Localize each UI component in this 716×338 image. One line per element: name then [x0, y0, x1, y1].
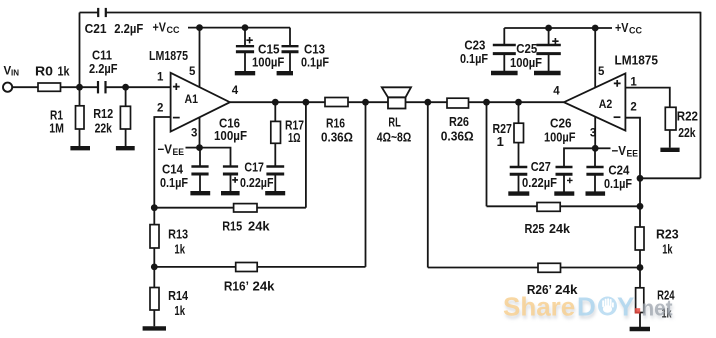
svg-text:0.36Ω: 0.36Ω [441, 129, 474, 144]
ground - R22 [660, 148, 679, 152]
svg-text:100µF: 100µF [544, 129, 576, 144]
svg-text:4Ω~8Ω: 4Ω~8Ω [377, 129, 411, 144]
svg-text:R22: R22 [677, 109, 698, 124]
capacitor C24 [586, 166, 603, 168]
wire - R25 left vertical [486, 102, 488, 206]
ground - C25 [534, 71, 561, 75]
svg-text:R25: R25 [525, 221, 545, 236]
wire - C14 stem upper [199, 148, 201, 167]
svg-text:22k: 22k [95, 121, 113, 136]
svg-text:1k: 1k [174, 303, 185, 318]
svg-text:+V: +V [153, 19, 167, 34]
ground - R14 [143, 326, 166, 330]
svg-text:1k: 1k [662, 241, 673, 256]
wire - node to R15 right vertical [305, 102, 307, 208]
wire - -Vee right label dash [598, 147, 611, 149]
wire - +Vcc left rail [188, 27, 290, 29]
resistor R15 [234, 204, 257, 212]
node speaker left [362, 99, 369, 106]
capacitor C15 [236, 45, 254, 47]
svg-text:100µF: 100µF [214, 128, 247, 143]
svg-text:IN: IN [11, 69, 19, 78]
svg-text:−V: −V [158, 142, 173, 156]
wire - A1 pin 3 down to -Vee node [199, 117, 201, 147]
wire - node to R26p column [427, 102, 429, 267]
svg-text:2: 2 [630, 102, 636, 114]
op-amp A2 [564, 73, 626, 130]
svg-text:C25: C25 [516, 41, 537, 56]
svg-text:1: 1 [497, 134, 504, 149]
resistor R23 [635, 227, 644, 250]
svg-text:100µF: 100µF [252, 55, 284, 70]
ground - R1 [70, 146, 90, 150]
capacitor C21 [97, 8, 99, 17]
wire - R27/C27 branch [518, 102, 520, 167]
svg-text:3: 3 [590, 128, 596, 140]
svg-text:R0: R0 [35, 64, 53, 79]
svg-text:LM1875: LM1875 [149, 49, 188, 63]
svg-text:R14: R14 [168, 288, 189, 303]
svg-text:RL: RL [388, 114, 400, 129]
wire - R16p row [154, 266, 365, 268]
wire - A2 pin 1 to R22 [625, 88, 669, 108]
wire - C16 stem lower [230, 174, 232, 191]
ground - C14 [190, 191, 210, 195]
svg-text:net: net [642, 296, 674, 321]
svg-text:3: 3 [191, 128, 197, 140]
resistor R26 [447, 98, 469, 108]
wire - A2 pin 5 to +Vcc [594, 28, 596, 88]
svg-text:2: 2 [157, 103, 163, 115]
capacitor C27 [510, 166, 528, 168]
node +Vcc pin5 A2 [592, 25, 599, 32]
resistor R27 [514, 123, 524, 142]
svg-text:C17: C17 [244, 159, 264, 174]
svg-text:24k: 24k [549, 221, 571, 236]
resistor R17 [271, 121, 281, 143]
wire - R17/C17 branch [274, 102, 276, 166]
resistor R16 [325, 98, 348, 107]
wire - A2 pin 3 down to -Vee node [594, 117, 596, 149]
wire - A1 pin 5 to +Vcc [199, 28, 201, 88]
svg-text:2.2µF: 2.2µF [114, 21, 143, 36]
wire - C26 stem lower [563, 174, 565, 191]
wire - C13 stem lower [289, 52, 291, 72]
svg-text:LM1875: LM1875 [615, 54, 659, 68]
wire - top rail C21 to top-right corner [106, 12, 701, 14]
wire - A1 pin 2 stub [154, 117, 170, 208]
ground - C13 [277, 71, 293, 75]
capacitor C16 [223, 165, 238, 167]
wire - C23 drop [503, 28, 505, 45]
wire - +Vcc right rail [504, 27, 612, 29]
node A2 out / R27 [515, 99, 522, 106]
capacitor C17 [266, 165, 284, 167]
svg-text:1: 1 [157, 72, 164, 84]
ground - C15 [235, 71, 255, 75]
svg-text:0.22µF: 0.22µF [522, 175, 557, 190]
wire - C24 stem upper [594, 148, 596, 167]
wire - R13 column [153, 208, 155, 267]
resistor R1 [76, 106, 85, 129]
svg-text:0.1µF: 0.1µF [160, 175, 188, 190]
capacitor C26 [556, 166, 573, 168]
svg-text:R16’: R16’ [224, 279, 249, 294]
wire - speaker right to A2 output [406, 101, 564, 103]
node R13/R14 [151, 264, 158, 271]
svg-text:0.1µF: 0.1µF [301, 55, 329, 70]
svg-text:CC: CC [167, 25, 180, 35]
op-amp A1 [171, 73, 230, 132]
node A input [76, 84, 83, 91]
ground - C24 [586, 191, 606, 195]
ground - C17 [265, 191, 285, 195]
wire - -Vee node to C16 [200, 148, 231, 167]
wire - A2 pin 2 to feedback column [625, 118, 640, 327]
svg-text:0.36Ω: 0.36Ω [321, 129, 353, 144]
node R23/R24 [637, 264, 644, 271]
svg-text:D: D [577, 292, 596, 322]
ground - C16 [221, 191, 240, 195]
wire - right border down [700, 12, 702, 179]
svg-text:22k: 22k [678, 125, 696, 140]
ground - C27 [508, 191, 529, 195]
svg-text:24k: 24k [253, 279, 276, 294]
ground - R24 [630, 327, 650, 331]
terminal Vin [3, 83, 12, 92]
wire - C23 stem lower [503, 54, 505, 71]
svg-text:−V: −V [612, 144, 627, 158]
node -Vee A1 [196, 144, 203, 151]
svg-text:R13: R13 [168, 226, 188, 241]
svg-text:1k: 1k [174, 241, 185, 256]
node -Vee A2 [592, 145, 599, 152]
wire - node B to A1 pin 1 [126, 86, 171, 88]
svg-text:EE: EE [173, 147, 185, 157]
svg-text:0.1µF: 0.1µF [604, 176, 632, 191]
node C25 tap [545, 25, 552, 32]
node B [122, 84, 129, 91]
ground - R12 [116, 146, 135, 150]
svg-text:Share: Share [503, 292, 575, 322]
resistor R22 [665, 107, 676, 130]
svg-text:1Ω: 1Ω [288, 130, 301, 145]
wire - -Vee node to C26 [564, 148, 595, 167]
wire - R12 branch down from node B [125, 87, 127, 146]
wire - A1 output to speaker [230, 101, 388, 103]
capacitor C25 [536, 44, 560, 46]
wire - R14 column [153, 267, 155, 326]
wire - R15 row [154, 207, 306, 209]
resistor R14 [150, 288, 159, 311]
svg-text:100µF: 100µF [510, 55, 542, 70]
svg-text:1k: 1k [58, 64, 71, 79]
wire - -Vee label dash [186, 147, 198, 149]
node C15 tap [242, 24, 249, 31]
wire - R25 row [487, 205, 641, 207]
resistor R26p [538, 263, 561, 272]
capacitor C13 [282, 45, 299, 47]
resistor R24 [636, 288, 644, 313]
svg-text:R23: R23 [656, 226, 679, 241]
svg-text:R16: R16 [326, 115, 345, 130]
wire - C27 stem lower [518, 174, 520, 191]
wire - R0 to node A [61, 86, 80, 88]
svg-text:C21: C21 [85, 21, 107, 36]
svg-text:4: 4 [553, 86, 560, 98]
wire - input to R0 [12, 86, 38, 88]
wire - C15 stem lower [244, 52, 246, 72]
svg-text:2.2µF: 2.2µF [89, 61, 118, 76]
svg-text:A1: A1 [185, 92, 199, 106]
wire - R26p row [428, 267, 640, 269]
wire - top rail left of C21 [80, 12, 99, 14]
svg-text:5: 5 [598, 66, 605, 78]
svg-text:R26: R26 [449, 114, 469, 129]
resistor R0 [38, 83, 61, 91]
capacitor C23 [493, 44, 516, 46]
svg-text:0.22µF: 0.22µF [240, 175, 274, 190]
wire - R1 branch down from node A [79, 87, 81, 146]
svg-text:A2: A2 [599, 97, 613, 111]
resistor R13 [150, 225, 159, 248]
wire - R16p up to speaker left node [365, 102, 367, 267]
svg-text:24k: 24k [248, 218, 270, 233]
svg-text:1M: 1M [49, 121, 64, 136]
node A2 out / R25 [483, 99, 490, 106]
wire - right border corner to node above R23 [640, 177, 701, 179]
node R13 top [151, 204, 158, 211]
wire - C17 stem lower [274, 174, 276, 191]
wire - C25 stem lower [548, 54, 550, 71]
svg-text:CC: CC [629, 26, 642, 36]
capacitor C11 [97, 81, 99, 93]
wire - R22 stem lower [669, 130, 671, 148]
wire - node A to C11 [80, 86, 99, 88]
svg-text:1: 1 [630, 77, 637, 89]
svg-text:4: 4 [232, 85, 239, 97]
ground - C23 [491, 71, 518, 75]
wire - C25 stem upper [548, 28, 550, 45]
node speaker right [424, 99, 431, 106]
svg-text:0.1µF: 0.1µF [460, 51, 488, 66]
wire - C11 to node B [106, 86, 126, 88]
svg-text:5: 5 [189, 66, 196, 78]
wire - C14 stem lower [199, 174, 201, 191]
capacitor C14 [191, 165, 208, 167]
speaker RL [388, 97, 406, 108]
resistor R25 [537, 203, 560, 212]
node A1 out / R15 [303, 99, 310, 106]
resistor R16p [236, 263, 258, 272]
node feedback top right [637, 175, 644, 182]
svg-text:+V: +V [615, 20, 629, 35]
wire - C13 drop [289, 28, 291, 47]
svg-text:Y: Y [617, 292, 634, 322]
resistor R12 [120, 106, 130, 129]
svg-text:C27: C27 [531, 159, 551, 174]
wire - C15 stem upper [244, 28, 246, 47]
node R25 right [637, 203, 644, 210]
ground - C26 [554, 191, 574, 195]
svg-text:R12: R12 [93, 106, 113, 121]
node A1 out / R17 [272, 99, 279, 106]
wire - C24 stem lower [594, 174, 596, 191]
node +Vcc pin5 A1 [196, 24, 203, 31]
wire - node A up to top feedback rail [79, 13, 81, 88]
svg-text:EE: EE [627, 149, 639, 159]
svg-text:R15: R15 [222, 218, 242, 233]
